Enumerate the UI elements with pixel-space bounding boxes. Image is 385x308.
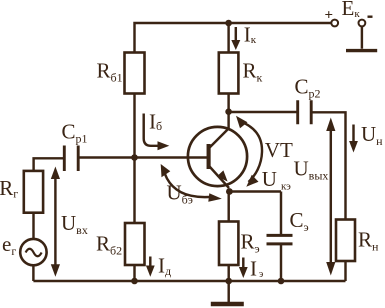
terminal + of Ek xyxy=(331,20,338,27)
svg-text:Rэ: Rэ xyxy=(241,230,260,256)
measure arc Ube xyxy=(164,169,214,197)
terminal - of Ek xyxy=(359,20,366,27)
measure arrow Un xyxy=(352,125,354,145)
svg-text:Cр2: Cр2 xyxy=(295,75,321,101)
node Rb2 bottom xyxy=(131,278,138,285)
wire Rn bottom xyxy=(344,261,346,281)
svg-text:VT: VT xyxy=(265,138,293,162)
capacitor Ce xyxy=(267,235,293,244)
resistor Rb2 xyxy=(125,223,145,265)
measure arrow Uvyx xyxy=(330,123,332,270)
svg-text:Rн: Rн xyxy=(358,228,379,254)
svg-text:Rг: Rг xyxy=(0,176,18,201)
measure arrow Uvx xyxy=(54,171,56,272)
svg-text:Iд: Iд xyxy=(158,254,171,279)
wire bottom rail xyxy=(33,280,345,282)
wire Ek minus lead xyxy=(361,27,363,49)
wire Ce bottom xyxy=(280,244,282,281)
ground xyxy=(227,281,229,303)
svg-text:Cр1: Cр1 xyxy=(62,120,88,146)
wire base xyxy=(78,156,207,158)
svg-text:eг: eг xyxy=(2,232,16,258)
svg-text:Uкэ: Uкэ xyxy=(262,167,291,193)
wire Rb1 to base junction xyxy=(133,94,135,158)
wire base node to Rb2 xyxy=(133,158,135,224)
node Re bottom xyxy=(225,278,232,285)
wire collector xyxy=(227,94,229,130)
transistor VT xyxy=(188,127,247,186)
resistor Rb1 xyxy=(125,53,145,94)
svg-text:Uвх: Uвх xyxy=(61,211,88,237)
wire emitter to Ce branch xyxy=(229,192,281,236)
wire emitter to Re xyxy=(227,192,229,222)
node Ce bottom xyxy=(278,278,285,285)
svg-text:Eк: Eк xyxy=(342,0,361,20)
node emitter xyxy=(226,188,233,195)
capacitor Cp2 xyxy=(298,100,312,124)
resistor Rn xyxy=(336,220,355,262)
measure arc Uke xyxy=(241,122,263,183)
svg-text:Iк: Iк xyxy=(244,23,257,47)
wire Rk top xyxy=(227,23,229,53)
wire top rail xyxy=(135,23,332,53)
wire Re bottom xyxy=(227,265,229,281)
source eg xyxy=(20,239,46,265)
svg-text:Cэ: Cэ xyxy=(290,208,309,234)
capacitor Cp1 xyxy=(64,146,78,172)
wire Rg to eg xyxy=(32,213,34,239)
svg-text:Rк: Rк xyxy=(243,59,263,85)
wire Rb2 bottom xyxy=(133,265,135,281)
svg-text:Iэ: Iэ xyxy=(250,257,263,281)
current arrow Ie xyxy=(242,258,244,270)
wire collector node to Cp2 xyxy=(229,111,298,113)
svg-text:Rб1: Rб1 xyxy=(97,59,123,85)
resistor Rg xyxy=(24,171,43,213)
node collector junction xyxy=(225,108,232,115)
current arrow Id xyxy=(149,257,151,269)
label minus xyxy=(368,16,373,18)
wire input node corner xyxy=(34,158,64,171)
wire eg to rail xyxy=(32,265,34,281)
current arrow Ik xyxy=(235,27,237,41)
current arrow Ib xyxy=(144,114,159,146)
wire Cp2 to Rn xyxy=(311,112,345,219)
svg-text:Uвых: Uвых xyxy=(294,157,329,183)
node top rail junction xyxy=(225,20,232,27)
svg-text:Iб: Iб xyxy=(149,110,162,134)
svg-text:Rб2: Rб2 xyxy=(96,232,122,258)
resistor Rk xyxy=(219,53,239,94)
svg-text:+: + xyxy=(325,8,334,24)
chassis bar of Ek xyxy=(346,49,377,52)
resistor Re xyxy=(219,222,238,266)
svg-text:Uн: Uн xyxy=(361,122,383,148)
svg-text:Uбэ: Uбэ xyxy=(167,181,193,207)
node base junction xyxy=(131,154,138,161)
